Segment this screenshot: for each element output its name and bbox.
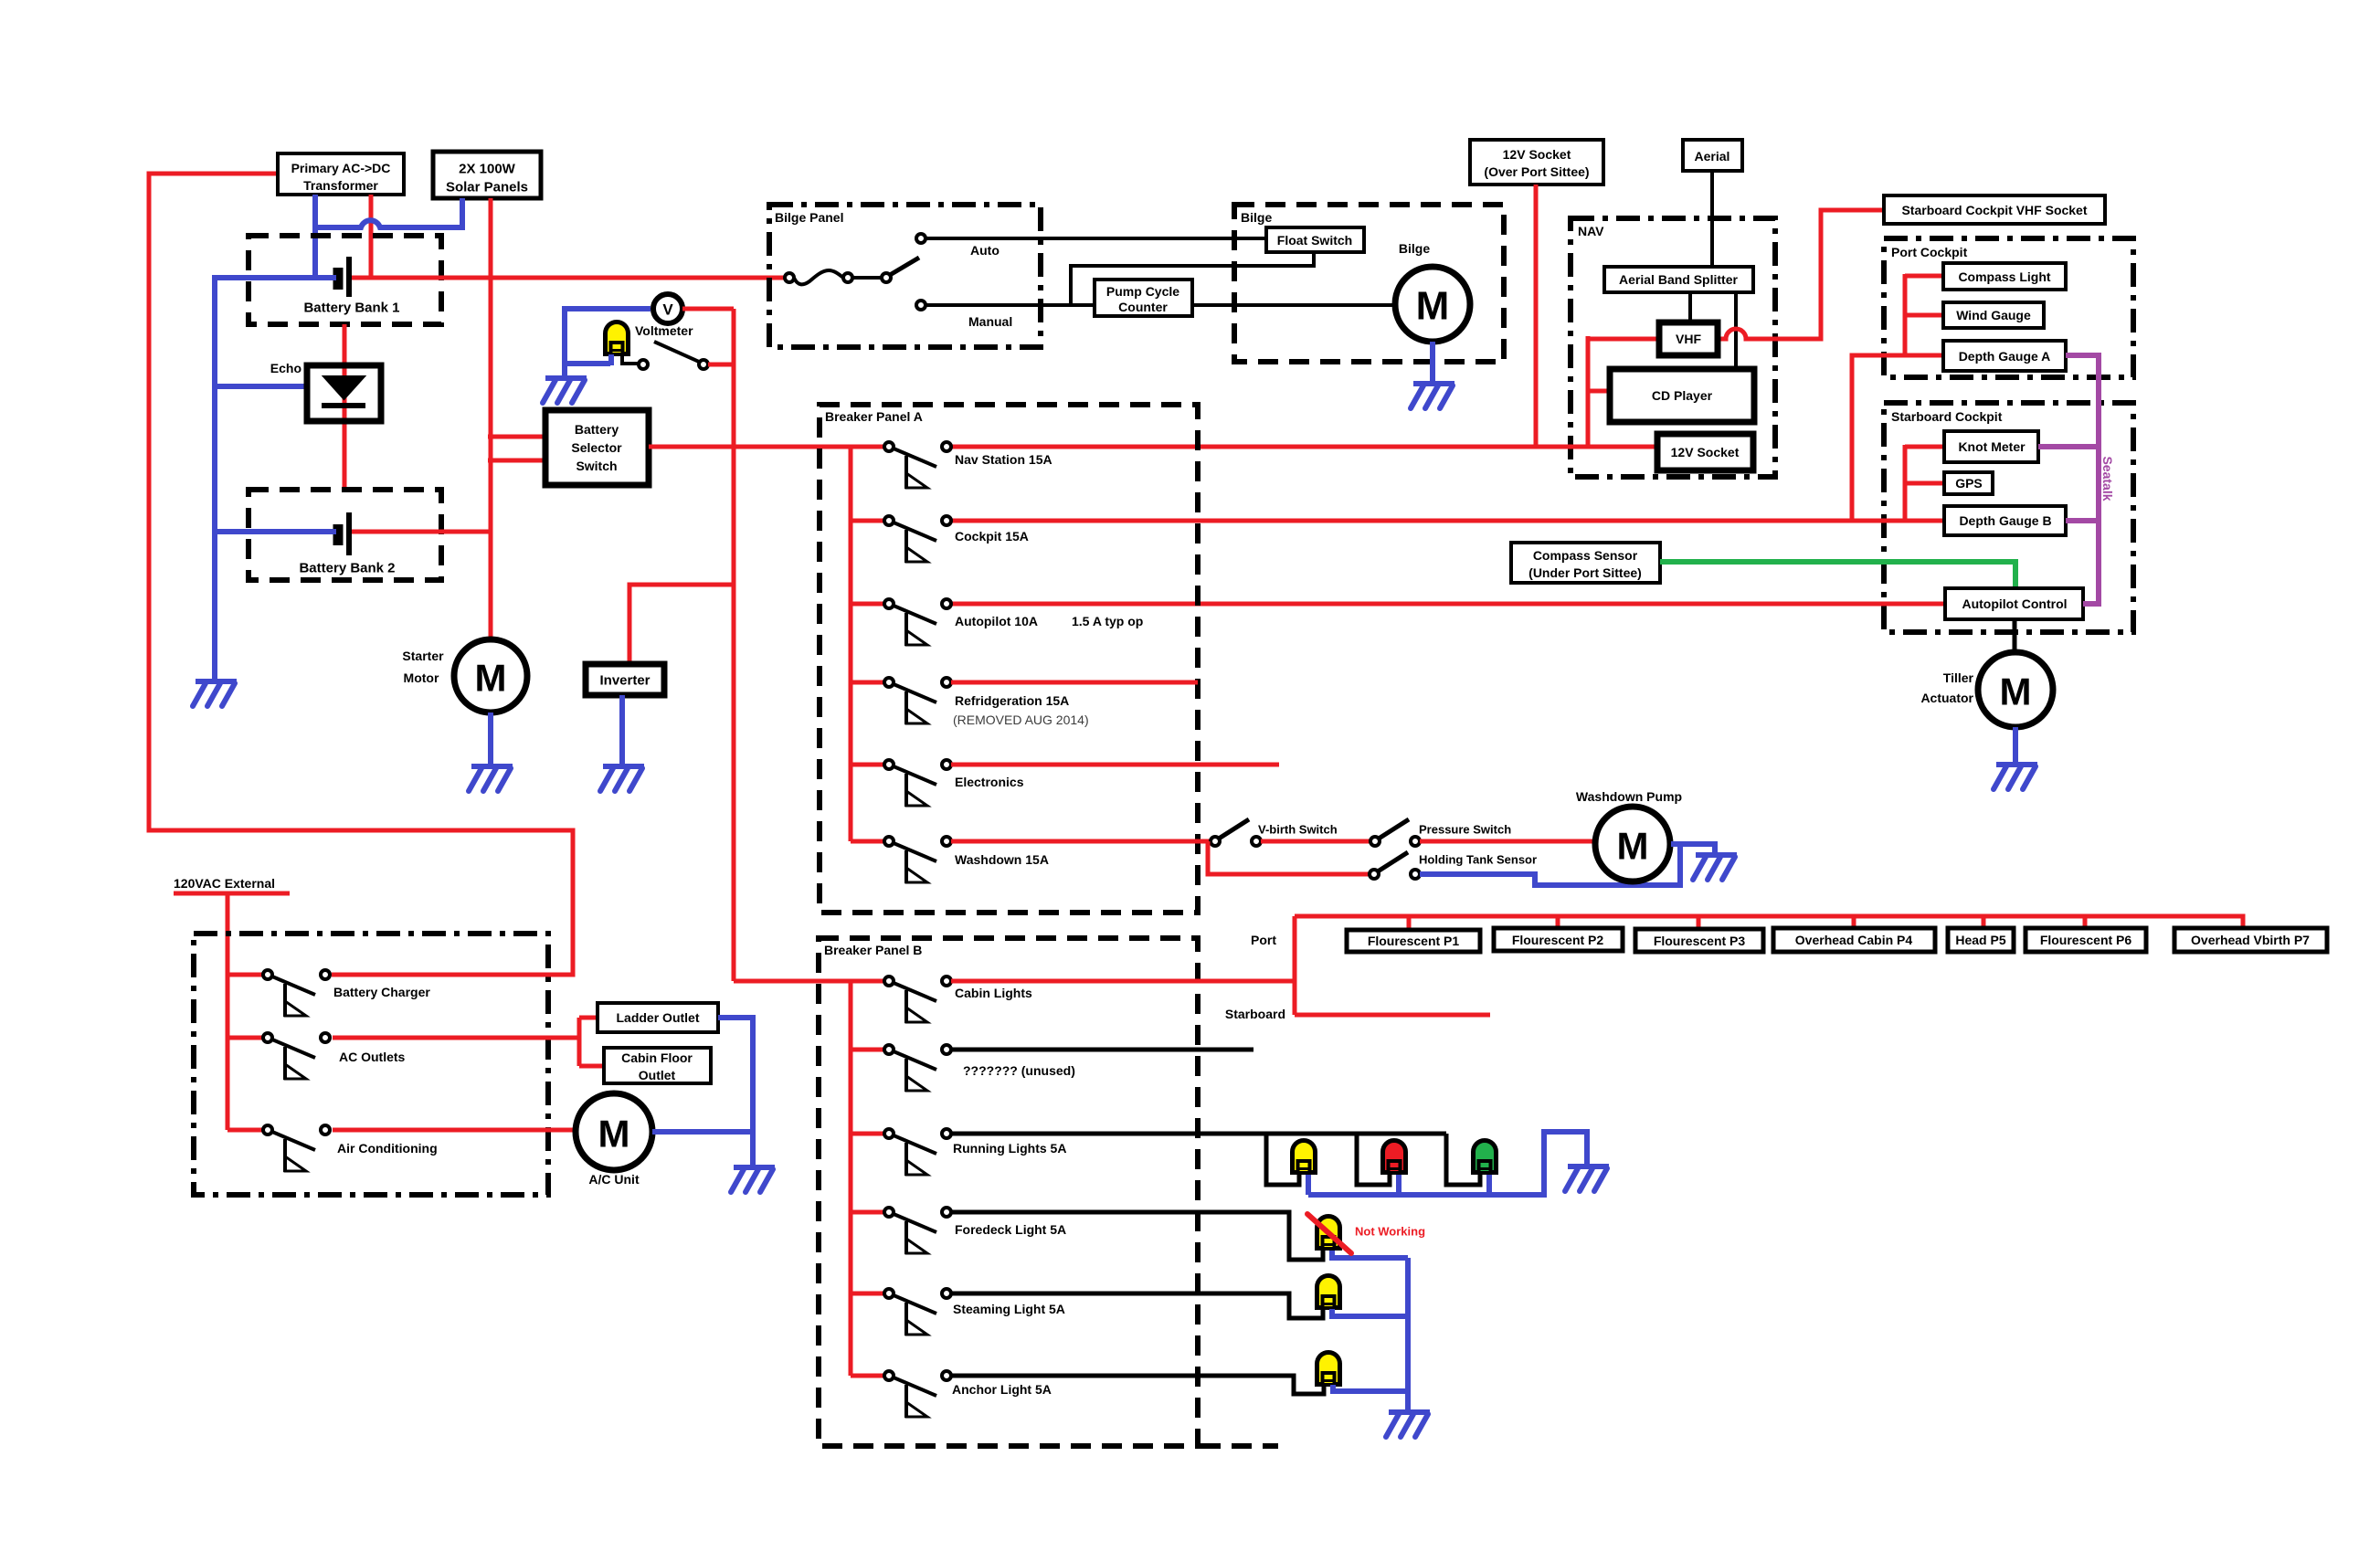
switch holding tank bbox=[1370, 852, 1420, 879]
wire blue inverter to ground bbox=[619, 695, 625, 766]
wire red washdown line bbox=[951, 839, 1211, 844]
svg-text:??????? (unused): ??????? (unused) bbox=[963, 1063, 1075, 1078]
wire blue bilge motor ground bbox=[1430, 342, 1435, 384]
VHF box bbox=[1659, 322, 1718, 355]
wire red autopilot 10A line bbox=[951, 602, 1945, 607]
flourescent P1 box bbox=[1347, 930, 1480, 952]
svg-text:Starter: Starter bbox=[402, 649, 444, 663]
wire red electronics line bbox=[951, 763, 1279, 767]
svg-text:Echo: Echo bbox=[270, 361, 301, 375]
wire red NAV feeds bbox=[1586, 336, 1591, 447]
ground starter motor bbox=[469, 766, 513, 791]
svg-text:Bilge Panel: Bilge Panel bbox=[775, 210, 843, 225]
svg-text:Steaming Light 5A: Steaming Light 5A bbox=[953, 1302, 1065, 1316]
starboard cockpit VHF socket box bbox=[1884, 195, 2105, 224]
ground nav lights bbox=[1386, 1412, 1430, 1437]
wire red port cockpit feed riser bbox=[1852, 355, 1943, 521]
breaker panel A dashed box bbox=[820, 405, 1198, 913]
breaker switch Washdown 15A bbox=[884, 837, 951, 883]
wire red drop to lamp box 1859 bbox=[1697, 916, 1701, 930]
wire red panel B bus bbox=[849, 981, 853, 1376]
svg-text:Seatalk: Seatalk bbox=[2100, 456, 2115, 501]
breaker switch Nav Station 15A bbox=[884, 442, 951, 489]
wire red drop to lamp box 2282 bbox=[2083, 916, 2088, 930]
battery bank 1 cell symbol bbox=[338, 257, 349, 297]
wire blue holding tank return bbox=[1420, 841, 1680, 885]
svg-text:Solar Panels: Solar Panels bbox=[446, 180, 528, 195]
wire red outlets split bbox=[579, 1018, 604, 1066]
wire red cockpit 15A line bbox=[951, 519, 1944, 523]
voltmeter V circle bbox=[653, 294, 682, 323]
svg-text:(Under Port Sittee): (Under Port Sittee) bbox=[1528, 565, 1642, 580]
svg-text:Depth Gauge B: Depth Gauge B bbox=[1959, 513, 2051, 528]
svg-text:Flourescent P2: Flourescent P2 bbox=[1512, 933, 1604, 947]
starboard cockpit dash-dot box bbox=[1884, 403, 2133, 632]
breaker switch Steaming Light 5A bbox=[884, 1289, 951, 1335]
wire red drop to lamp box 1705 bbox=[1556, 916, 1560, 930]
svg-text:Flourescent P1: Flourescent P1 bbox=[1368, 934, 1460, 948]
wire black autopilot to tiller actuator bbox=[2013, 619, 2017, 652]
svg-text:Port Cockpit: Port Cockpit bbox=[1891, 245, 1968, 259]
lamp LED foredeck lamp bbox=[1317, 1217, 1340, 1250]
wire red selector output to breaker panel A bbox=[649, 445, 885, 449]
depth gauge A box bbox=[1943, 341, 2066, 371]
svg-text:(Over Port Sittee): (Over Port Sittee) bbox=[1484, 164, 1589, 179]
wire black running lamp bracket 2 bbox=[1357, 1134, 1390, 1185]
wire red transformer positive bbox=[369, 195, 374, 277]
wire red bank2 positive bbox=[352, 530, 492, 534]
svg-text:Transformer: Transformer bbox=[303, 178, 378, 193]
svg-text:Not Working: Not Working bbox=[1355, 1225, 1425, 1239]
inverter box bbox=[586, 664, 664, 695]
svg-text:Breaker Panel A: Breaker Panel A bbox=[825, 409, 923, 424]
svg-text:Electronics: Electronics bbox=[955, 775, 1024, 789]
wire red panel B stub row 1506 bbox=[851, 1374, 885, 1378]
wire black anchor line and bracket bbox=[951, 1376, 1324, 1394]
wire black foredeck line and bracket bbox=[951, 1212, 1323, 1260]
svg-text:Cockpit 15A: Cockpit 15A bbox=[955, 529, 1029, 544]
wire red AC stub row 1237 bbox=[227, 1128, 264, 1133]
wire red panel B feed bbox=[734, 979, 885, 984]
motor M tiller actuator bbox=[1978, 652, 2053, 727]
wire red inverter feed bbox=[629, 585, 734, 664]
wire red voltmeter positive bbox=[682, 307, 734, 311]
wire purple seatalk bus bbox=[2038, 353, 2099, 607]
wire black splitter to CD player bbox=[1734, 292, 1738, 369]
wire red AC stub row 1136 bbox=[227, 1036, 264, 1040]
wire red AC bus bbox=[226, 893, 230, 1130]
diode Echo isolator box bbox=[307, 365, 381, 421]
wire black unused line bbox=[951, 1048, 1253, 1052]
knot meter box bbox=[1944, 431, 2038, 462]
svg-text:Depth Gauge A: Depth Gauge A bbox=[1959, 349, 2051, 364]
wire red trunk transformer-left down to 120VAC loop bbox=[149, 174, 573, 975]
aerial box bbox=[1683, 140, 1742, 171]
wire blue tiller ground bbox=[2013, 727, 2018, 765]
svg-text:Ladder Outlet: Ladder Outlet bbox=[616, 1010, 699, 1025]
autopilot control box bbox=[1945, 588, 2083, 619]
breaker switch AC Outlets bbox=[263, 1033, 330, 1080]
head P5 box bbox=[1948, 928, 2014, 952]
wire red not-working cross bbox=[1307, 1214, 1351, 1253]
svg-text:Switch: Switch bbox=[576, 459, 617, 473]
wire black lamp to switch contact bbox=[622, 356, 638, 364]
svg-text:Overhead Cabin P4: Overhead Cabin P4 bbox=[1795, 933, 1913, 947]
svg-text:Inverter: Inverter bbox=[599, 673, 650, 689]
ladder outlet box bbox=[598, 1003, 718, 1032]
wire red bank1 positive to bilge panel bbox=[352, 276, 789, 280]
battery selector switch box bbox=[545, 410, 649, 485]
ground voltmeter bbox=[543, 378, 587, 403]
wire black float switch return bbox=[1071, 252, 1314, 305]
svg-text:Breaker Panel B: Breaker Panel B bbox=[824, 943, 922, 957]
bilge panel dash-dot box bbox=[769, 205, 1041, 347]
svg-text:Aerial: Aerial bbox=[1695, 149, 1730, 164]
motor M starter motor bbox=[454, 639, 527, 712]
port cockpit dash-dot box bbox=[1884, 238, 2133, 377]
breaker switch Battery Charger bbox=[263, 970, 330, 1017]
svg-text:Holding Tank Sensor: Holding Tank Sensor bbox=[1419, 853, 1537, 867]
wire black auto line to float switch bbox=[926, 237, 1266, 240]
svg-text:Air Conditioning: Air Conditioning bbox=[337, 1141, 438, 1156]
wire red panel B stub row 1149 bbox=[851, 1048, 885, 1052]
lamp LED voltmeter lamp bbox=[606, 322, 629, 355]
svg-text:CD Player: CD Player bbox=[1652, 388, 1713, 403]
wire red main DC bus down to breaker panel B bbox=[732, 309, 736, 981]
wire red AC stub row 1067 bbox=[227, 973, 264, 977]
flourescent P2 box bbox=[1494, 928, 1623, 951]
svg-text:Tiller: Tiller bbox=[1943, 670, 1974, 685]
wire red port lights bus bbox=[1295, 916, 2243, 928]
wire blue anchor return bbox=[1333, 1385, 1408, 1391]
AC distribution dash-dot box bbox=[194, 934, 548, 1195]
svg-text:Foredeck Light 5A: Foredeck Light 5A bbox=[955, 1222, 1066, 1237]
GPS box bbox=[1944, 472, 1993, 494]
svg-text:M: M bbox=[1416, 284, 1450, 329]
wire blue lights ground bus bbox=[1405, 1258, 1411, 1412]
svg-text:M: M bbox=[1617, 825, 1649, 868]
svg-text:Battery Bank 2: Battery Bank 2 bbox=[299, 561, 395, 576]
wire black manual line to pump cycle counter bbox=[926, 303, 1095, 307]
ground battery negative bus bbox=[193, 681, 237, 706]
wire blue running lamp 2 drop bbox=[1396, 1175, 1402, 1195]
wire red VHF out with hop to starboard socket bbox=[1718, 210, 1884, 339]
svg-text:Refridgeration 15A: Refridgeration 15A bbox=[955, 693, 1069, 708]
wire red panel B stub row 1327 bbox=[851, 1210, 885, 1215]
ground A/C unit bbox=[731, 1167, 775, 1192]
svg-text:Counter: Counter bbox=[1118, 300, 1168, 314]
wire black counter to bilge motor bbox=[1192, 303, 1395, 307]
wire blue voltmeter negative loop bbox=[565, 309, 651, 364]
breaker switch Running Lights 5A bbox=[884, 1129, 951, 1176]
wire red panel B stub row 1241 bbox=[851, 1132, 885, 1136]
wire red vbirth to pressure bbox=[1261, 839, 1370, 844]
svg-text:M: M bbox=[475, 657, 507, 700]
breaker switch Cockpit 15A bbox=[884, 516, 951, 563]
pump cycle counter box bbox=[1095, 280, 1192, 316]
wind gauge box bbox=[1943, 302, 2044, 328]
wire black running lamp bracket 3 bbox=[1446, 1134, 1480, 1185]
svg-text:Flourescent P3: Flourescent P3 bbox=[1654, 934, 1746, 948]
wire red nav station line bbox=[951, 445, 1657, 449]
svg-text:Starboard: Starboard bbox=[1225, 1007, 1285, 1021]
breaker switch Cabin Lights bbox=[884, 976, 951, 1023]
wire blue bank1 negative bbox=[215, 275, 336, 280]
wire blue foredeck return bbox=[1332, 1251, 1408, 1258]
wire red refridgeration line bbox=[951, 681, 1198, 685]
compass sensor box bbox=[1511, 543, 1660, 583]
wire dashed panel B bottom overhang bbox=[1201, 1443, 1278, 1449]
node Manual contact bbox=[916, 301, 926, 310]
switch V-birth bbox=[1211, 819, 1261, 846]
svg-text:Running Lights 5A: Running Lights 5A bbox=[953, 1141, 1066, 1156]
svg-text:M: M bbox=[2000, 670, 2032, 713]
svg-text:Aerial Band Splitter: Aerial Band Splitter bbox=[1619, 272, 1738, 287]
wire blue washdown pump ground bbox=[1671, 844, 1715, 855]
transformer box Primary AC->DC bbox=[278, 153, 404, 195]
svg-text:Autopilot 10A: Autopilot 10A bbox=[955, 614, 1038, 628]
ground inverter bbox=[600, 766, 644, 791]
wire blue ladder outlet return bbox=[718, 1018, 753, 1167]
wire blue echo tap bbox=[215, 384, 309, 389]
battery bank 2 cell symbol bbox=[338, 512, 349, 555]
breaker switch Foredeck Light 5A bbox=[884, 1208, 951, 1254]
svg-text:Anchor Light 5A: Anchor Light 5A bbox=[952, 1382, 1052, 1397]
wire red cabin lights line bbox=[951, 979, 1295, 984]
svg-text:Motor: Motor bbox=[404, 670, 439, 685]
svg-text:Starboard Cockpit: Starboard Cockpit bbox=[1891, 409, 2003, 424]
wire blue running lamp 3 drop bbox=[1486, 1175, 1492, 1195]
switch bilge panel 3-position bbox=[785, 258, 919, 284]
battery bank 2 dashed box bbox=[249, 490, 441, 580]
wire red panel A stub row 570 bbox=[851, 519, 885, 523]
svg-text:Bilge: Bilge bbox=[1241, 210, 1272, 225]
svg-text:Auto: Auto bbox=[970, 243, 1000, 258]
flourescent P3 box bbox=[1635, 929, 1763, 952]
svg-text:NAV: NAV bbox=[1578, 224, 1604, 238]
svg-text:Selector: Selector bbox=[571, 440, 622, 455]
svg-text:120VAC External: 120VAC External bbox=[174, 876, 275, 891]
CD player box bbox=[1610, 369, 1754, 422]
svg-text:Starboard Cockpit VHF Socket: Starboard Cockpit VHF Socket bbox=[1901, 203, 2087, 217]
svg-text:Nav Station 15A: Nav Station 15A bbox=[955, 452, 1052, 467]
bilge dashed box bbox=[1234, 205, 1504, 362]
breaker switch unused bbox=[884, 1045, 951, 1092]
ground bilge motor bbox=[1411, 384, 1454, 408]
wire green compass sensor to autopilot bbox=[1660, 562, 2015, 588]
wire red AC outlets line bbox=[333, 1036, 579, 1040]
breaker switch Refridgeration 15A bbox=[884, 678, 951, 724]
wire black steaming line and bracket bbox=[951, 1293, 1323, 1318]
svg-text:Autopilot Control: Autopilot Control bbox=[1962, 596, 2067, 611]
svg-text:Port: Port bbox=[1251, 933, 1276, 947]
12V socket NAV box bbox=[1657, 434, 1753, 470]
wire black aerial to splitter bbox=[1710, 171, 1714, 267]
wire black splitter to VHF bbox=[1688, 292, 1692, 322]
wire blue solar negative with hop over red bbox=[315, 198, 462, 227]
wire red panel A stub row 921 bbox=[851, 839, 885, 844]
svg-text:Flourescent P6: Flourescent P6 bbox=[2040, 933, 2132, 947]
battery bank 1 dashed box bbox=[249, 236, 441, 324]
node Auto contact bbox=[916, 234, 926, 243]
svg-text:M: M bbox=[598, 1113, 630, 1156]
flourescent P6 box bbox=[2026, 928, 2146, 952]
wire blue bank2 negative bbox=[215, 529, 336, 534]
svg-text:GPS: GPS bbox=[1955, 476, 1983, 491]
wire red drop to lamp box 2171 bbox=[1982, 916, 1986, 930]
NAV dash-dot box bbox=[1571, 218, 1775, 477]
wire red drop to lamp box 1542 bbox=[1407, 916, 1412, 930]
wire blue starter motor to ground bbox=[488, 712, 493, 766]
svg-text:Compass Sensor: Compass Sensor bbox=[1533, 548, 1638, 563]
svg-text:Outlet: Outlet bbox=[639, 1068, 676, 1082]
wire black running lamp bracket 1 bbox=[1266, 1134, 1299, 1185]
lamp LED anchor lamp bbox=[1317, 1352, 1340, 1385]
compass light box bbox=[1943, 263, 2066, 290]
svg-text:Cabin Lights: Cabin Lights bbox=[955, 986, 1032, 1000]
svg-text:V-birth Switch: V-birth Switch bbox=[1258, 823, 1338, 837]
breaker switch Anchor Light 5A bbox=[884, 1371, 951, 1418]
svg-text:12V Socket: 12V Socket bbox=[1671, 445, 1740, 459]
float switch box bbox=[1266, 227, 1364, 252]
motor M washdown pump bbox=[1595, 807, 1670, 881]
wire red holding tank branch bbox=[1208, 841, 1370, 874]
wire red pressure to pump bbox=[1420, 839, 1596, 844]
wire blue steaming return bbox=[1332, 1309, 1408, 1316]
svg-text:Voltmeter: Voltmeter bbox=[635, 323, 693, 338]
wire blue running lights return bbox=[1308, 1132, 1587, 1195]
lamp LED stern green bbox=[1474, 1141, 1497, 1174]
svg-text:Compass Light: Compass Light bbox=[1958, 269, 2050, 284]
svg-text:Battery Bank 1: Battery Bank 1 bbox=[303, 301, 399, 316]
svg-text:A/C Unit: A/C Unit bbox=[588, 1172, 640, 1187]
wire red solar positive main bus down to starter motor bbox=[489, 198, 493, 639]
wire red voltmeter switch to bus bbox=[708, 363, 734, 367]
svg-text:Overhead Vbirth P7: Overhead Vbirth P7 bbox=[2191, 933, 2310, 947]
ground washdown pump bbox=[1693, 855, 1737, 880]
lamp LED steaming lamp bbox=[1317, 1276, 1340, 1309]
wire red port/starboard riser bbox=[1293, 916, 1297, 1015]
svg-text:Pump Cycle: Pump Cycle bbox=[1106, 284, 1179, 299]
svg-text:Knot Meter: Knot Meter bbox=[1958, 439, 2026, 454]
wire red 120VAC underline/feed bbox=[174, 892, 290, 896]
wire blue running lamp 1 drop bbox=[1306, 1175, 1311, 1195]
svg-text:Battery Charger: Battery Charger bbox=[333, 985, 430, 999]
wire blue left negative bus bbox=[212, 275, 217, 681]
svg-text:V: V bbox=[662, 301, 673, 319]
solar panels box 2X 100W bbox=[433, 152, 541, 198]
switch voltmeter selector bbox=[639, 342, 708, 369]
svg-text:Cabin Floor: Cabin Floor bbox=[621, 1050, 693, 1065]
wire red starboard cockpit bus bbox=[1905, 445, 1944, 522]
svg-text:Washdown 15A: Washdown 15A bbox=[955, 852, 1049, 867]
svg-text:12V Socket: 12V Socket bbox=[1503, 147, 1571, 162]
wire red selector input stubs bbox=[488, 435, 545, 439]
depth gauge B box bbox=[1944, 506, 2066, 535]
wire red socket drop to nav feed bbox=[1534, 185, 1539, 447]
aerial band splitter box bbox=[1604, 267, 1753, 292]
overhead cabin P4 box bbox=[1773, 928, 1935, 952]
wire red panel A stub row 837 bbox=[851, 763, 885, 767]
lamp LED running starboard red bbox=[1383, 1141, 1406, 1174]
lamp LED running port yellow bbox=[1293, 1141, 1316, 1174]
svg-text:Bilge: Bilge bbox=[1399, 241, 1430, 256]
svg-text:(REMOVED AUG 2014): (REMOVED AUG 2014) bbox=[953, 712, 1089, 727]
svg-text:Manual: Manual bbox=[968, 314, 1012, 329]
svg-text:VHF: VHF bbox=[1676, 332, 1701, 346]
svg-text:Washdown Pump: Washdown Pump bbox=[1576, 789, 1682, 804]
wire red battery charger line bbox=[333, 973, 573, 977]
wire red panel A bus bbox=[849, 447, 853, 841]
motor M bilge pump bbox=[1395, 267, 1470, 342]
breaker switch Electronics bbox=[884, 760, 951, 807]
wire red port cockpit bus bbox=[1905, 274, 1943, 357]
wire red panel A stub row 661 bbox=[851, 602, 885, 607]
switch pressure bbox=[1370, 819, 1420, 846]
svg-text:Primary AC->DC: Primary AC->DC bbox=[291, 161, 391, 175]
svg-text:Battery: Battery bbox=[575, 422, 619, 437]
wire red bank1 to echo to bank2 bbox=[343, 324, 347, 491]
wire red panel B stub row 1416 bbox=[851, 1292, 885, 1296]
breaker switch Air Conditioning bbox=[263, 1125, 330, 1172]
breaker panel B dashed box bbox=[819, 938, 1198, 1446]
12V socket over port sittee box bbox=[1470, 140, 1603, 185]
svg-text:1.5 A typ op: 1.5 A typ op bbox=[1072, 614, 1143, 628]
svg-text:Wind Gauge: Wind Gauge bbox=[1956, 308, 2031, 322]
wire black running lights line bbox=[951, 1132, 1446, 1136]
svg-text:2X 100W: 2X 100W bbox=[459, 162, 516, 177]
svg-text:Head P5: Head P5 bbox=[1955, 933, 2005, 947]
wire red air conditioning line bbox=[333, 1128, 576, 1133]
wire red drop to lamp box 2029 bbox=[1852, 916, 1856, 930]
wire blue transformer negative bbox=[312, 195, 318, 280]
overhead vbirth P7 box bbox=[2174, 928, 2327, 952]
breaker switch Autopilot 10A bbox=[884, 599, 951, 646]
wire blue A/C return bbox=[652, 1129, 753, 1135]
svg-text:AC Outlets: AC Outlets bbox=[339, 1050, 406, 1064]
svg-text:Actuator: Actuator bbox=[1920, 691, 1973, 705]
cabin floor outlet box bbox=[604, 1048, 711, 1083]
wire red panel A stub row 747 bbox=[851, 681, 885, 685]
wire red starboard lights bus bbox=[1295, 1013, 1490, 1018]
ground running lights bbox=[1565, 1166, 1609, 1191]
svg-text:Float Switch: Float Switch bbox=[1277, 233, 1352, 248]
motor M A/C unit bbox=[576, 1093, 652, 1170]
ground tiller actuator bbox=[1994, 765, 2037, 789]
wire blue lamp stub bbox=[608, 354, 614, 365]
svg-text:Pressure Switch: Pressure Switch bbox=[1419, 823, 1511, 837]
